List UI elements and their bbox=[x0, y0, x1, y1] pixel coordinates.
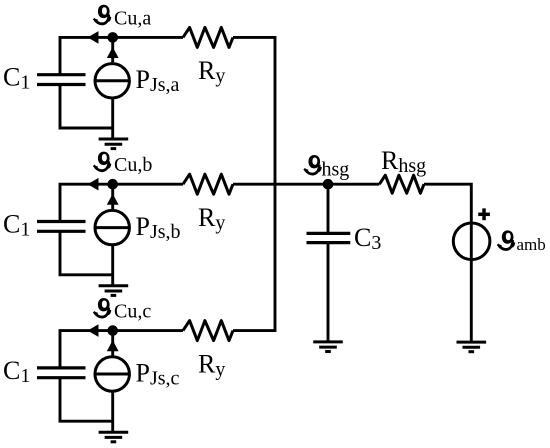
arrow on node wire (branch a) bbox=[88, 31, 99, 44]
wire branch c: resistor to bus bbox=[233, 329, 276, 332]
arrow on node wire (branch c) bbox=[88, 324, 99, 337]
resistor Ry (branch c) bbox=[183, 321, 233, 341]
svg-text:C1: C1 bbox=[3, 63, 30, 94]
resistor R_hsg bbox=[379, 175, 424, 193]
wire branch b: node to resistor Ry bbox=[113, 183, 183, 186]
svg-text:Cu,c: Cu,c bbox=[114, 301, 151, 323]
label theta_Cu,c bbox=[94, 298, 152, 323]
wire branch a: current source bottom to ground bbox=[111, 98, 114, 139]
svg-text:PJs,a: PJs,a bbox=[136, 65, 180, 96]
node theta_Cu,b (junction dot) bbox=[107, 179, 118, 190]
ground (branch b) bbox=[99, 286, 129, 296]
node theta_hsg (junction dot) bbox=[323, 179, 334, 190]
current source P_Js,b bbox=[95, 210, 129, 244]
svg-text:Rhsg: Rhsg bbox=[381, 146, 426, 177]
ground (branch a) bbox=[99, 139, 129, 149]
wire branch b: current source bottom to ground bbox=[111, 245, 114, 286]
resistor Ry (branch b) bbox=[183, 174, 233, 194]
wire branch a: node to resistor Ry bbox=[113, 36, 183, 39]
ground (theta_amb) bbox=[457, 342, 487, 352]
ground (C3) bbox=[313, 342, 343, 352]
svg-text:C1: C1 bbox=[3, 209, 30, 240]
label theta_Cu,b bbox=[94, 152, 153, 177]
wire branch a: capacitor bottom to ground junction bbox=[60, 85, 113, 129]
wire branch c: capacitor bottom to ground junction bbox=[60, 378, 113, 422]
wire: branch b resistor to theta_hsg node bbox=[233, 183, 379, 186]
wire branch c: node to resistor Ry bbox=[113, 329, 183, 332]
svg-text:Ry: Ry bbox=[198, 56, 225, 87]
plus sign of voltage source bbox=[478, 208, 490, 220]
wire: C3 bottom to ground bbox=[327, 243, 330, 342]
label theta_Cu,a bbox=[94, 5, 152, 30]
svg-text:PJs,b: PJs,b bbox=[136, 212, 181, 243]
wire branch c: node to left corner and down to capacitor bbox=[60, 331, 113, 368]
wire: vertical bus joining the three Ry outputs bbox=[274, 37, 277, 330]
current source P_Js,c bbox=[95, 357, 129, 391]
label theta_hsg bbox=[304, 155, 349, 181]
svg-text:Cu,a: Cu,a bbox=[114, 7, 151, 29]
svg-text:Cu,b: Cu,b bbox=[114, 154, 152, 176]
voltage source theta_amb (circle) bbox=[453, 223, 490, 260]
arrow on node wire (branch b) bbox=[88, 178, 99, 191]
svg-text:C1: C1 bbox=[3, 356, 30, 387]
svg-text:hsg: hsg bbox=[322, 159, 350, 181]
ground (branch c) bbox=[99, 432, 129, 442]
wire branch c: current source up to node (with arrow) bbox=[107, 334, 119, 356]
label theta_amb bbox=[497, 230, 545, 253]
resistor Ry (branch a) bbox=[183, 27, 233, 47]
node theta_Cu,a (junction dot) bbox=[107, 32, 118, 43]
wire: R_hsg to voltage source, down through it to ground bbox=[424, 184, 471, 342]
wire branch b: node to left corner and down to capacitor bbox=[60, 184, 113, 221]
capacitor C3 bbox=[307, 233, 351, 242]
svg-text:Ry: Ry bbox=[198, 349, 225, 380]
capacitor C1 (branch a) bbox=[37, 75, 86, 85]
node theta_Cu,c (junction dot) bbox=[107, 325, 118, 336]
svg-text:C3: C3 bbox=[354, 223, 381, 254]
svg-text:PJs,c: PJs,c bbox=[136, 358, 180, 389]
wire branch b: capacitor bottom to ground junction bbox=[60, 231, 113, 274]
current source P_Js,a bbox=[95, 64, 129, 98]
wire branch b: current source up to node (with arrow) bbox=[107, 187, 119, 209]
capacitor C1 (branch b) bbox=[37, 222, 86, 232]
capacitor C1 (branch c) bbox=[37, 368, 86, 378]
svg-text:amb: amb bbox=[517, 235, 546, 254]
wire branch a: node to left corner and down to capacitor bbox=[60, 37, 113, 74]
wire: theta_hsg node down to C3 bbox=[327, 184, 330, 233]
wire branch a: current source up to node (with arrow) bbox=[107, 40, 119, 62]
svg-text:Ry: Ry bbox=[198, 203, 225, 234]
wire branch c: current source bottom to ground bbox=[111, 391, 114, 432]
wire branch a: resistor to bus bbox=[233, 36, 276, 39]
